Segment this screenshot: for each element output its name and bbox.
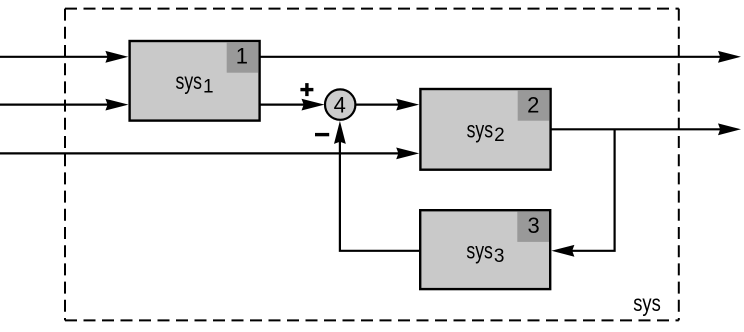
arrowhead into sys3 right input [551, 245, 574, 257]
wire summing junction to sys2 [356, 103, 404, 105]
svg-text:1: 1 [236, 44, 248, 69]
arrowhead output 2 [718, 123, 741, 135]
arrowhead input 1 into sys1 [105, 51, 128, 63]
summing junction node 4 [325, 89, 355, 119]
tag 2 (dark corner square of sys2) [518, 90, 550, 121]
arrowhead up into summing junction [334, 121, 346, 144]
svg-text:sys: sys [633, 290, 661, 316]
svg-text:3: 3 [527, 213, 539, 238]
svg-text:sys: sys [176, 68, 203, 94]
arrowhead input 3 into sys2 [396, 148, 419, 160]
arrowhead output 1 [718, 51, 741, 63]
arrowhead into sys2 input 1 [396, 99, 419, 111]
tag 1 (dark corner square of sys1) [227, 42, 259, 72]
svg-text:sys: sys [467, 117, 494, 143]
arrowhead input 2 into sys1 [105, 99, 128, 111]
wire sys3 output to summing junction [340, 136, 421, 251]
block sys1 [130, 41, 260, 121]
svg-text:1: 1 [203, 76, 214, 97]
wire feedback tap down from sys2 output [566, 129, 615, 251]
wire sys2 output to right edge [550, 128, 726, 130]
wire sys1 output 1 to right edge [259, 56, 726, 58]
minus sign at summing junction [315, 133, 329, 136]
svg-text:2: 2 [527, 93, 539, 118]
block sys2 [420, 89, 550, 170]
svg-text:sys: sys [466, 238, 493, 264]
svg-text:2: 2 [494, 125, 505, 146]
wire input 1 [0, 56, 113, 58]
arrowhead into summing junction [302, 99, 325, 111]
tag 3 (dark corner square of sys3) [517, 211, 549, 242]
dashed subsystem boundary sys [65, 9, 679, 321]
block sys3 [420, 210, 550, 289]
wire input 3 [0, 152, 404, 154]
plus sign at summing junction [300, 83, 313, 96]
svg-text:4: 4 [334, 93, 346, 118]
wire sys1 output 2 to summing junction [259, 103, 310, 105]
svg-text:3: 3 [494, 246, 505, 267]
wire input 2 [0, 103, 113, 105]
